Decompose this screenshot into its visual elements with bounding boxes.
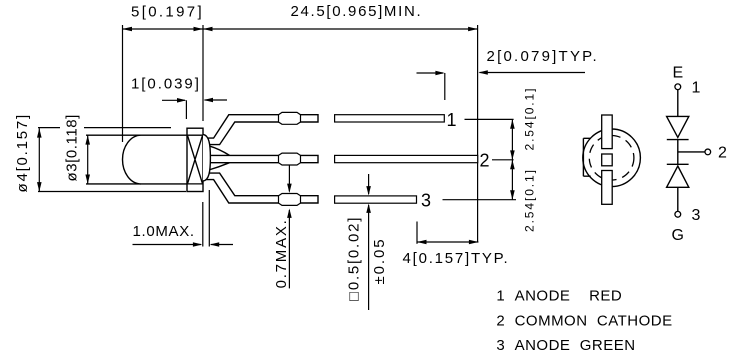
wire diode1 to diode2 xyxy=(677,140,679,165)
svg-text:1: 1 xyxy=(447,110,457,130)
bottom view dashed circle xyxy=(589,136,634,181)
stand-off bump lead 2 xyxy=(279,153,301,165)
diode D1 cathode bar xyxy=(667,139,689,141)
bottom view lead tab bottom xyxy=(602,171,613,205)
bottom view flat edge xyxy=(583,138,590,176)
lead 1 right segment xyxy=(335,115,445,122)
dimension 24.5[0.965]MIN. xyxy=(203,3,478,243)
dimension 2[0.079]TYP. xyxy=(417,48,599,100)
dimension 0.7MAX. xyxy=(273,166,292,289)
svg-text:0.7MAX.: 0.7MAX. xyxy=(273,218,290,288)
schematic terminal 2 xyxy=(705,149,711,155)
wire node to terminal 2 xyxy=(678,151,705,153)
dimension ø3[0.118] xyxy=(64,114,91,184)
svg-text:3: 3 xyxy=(692,207,701,224)
svg-text:3: 3 xyxy=(421,191,431,211)
bottom view outer circle xyxy=(583,129,641,187)
dimension square 0.5[0.02] ±0.05 xyxy=(346,174,389,310)
leader pin 2 xyxy=(492,159,514,161)
diode D1 (red) triangle xyxy=(667,116,689,137)
svg-text:2[0.079]TYP.: 2[0.079]TYP. xyxy=(487,48,599,65)
svg-text:1[0.039]: 1[0.039] xyxy=(131,76,201,93)
diode D2 cathode bar xyxy=(667,163,689,165)
LED package dome xyxy=(86,135,187,184)
lead 2 (straight, left segment) xyxy=(206,155,319,162)
svg-text:□0.5[0.02]: □0.5[0.02] xyxy=(346,216,363,301)
svg-text:2 COMMON CATHODE: 2 COMMON CATHODE xyxy=(496,313,672,330)
stand-off bump lead 3 xyxy=(279,194,301,206)
lead exit swoosh top xyxy=(209,146,230,156)
lead 2 right segment xyxy=(335,155,478,162)
dimension 1.0MAX. xyxy=(133,190,234,247)
svg-text:3 ANODE GREEN: 3 ANODE GREEN xyxy=(496,337,635,354)
dimension 5[0.197] xyxy=(123,4,205,143)
svg-text:2: 2 xyxy=(718,145,727,162)
svg-text:1.0MAX.: 1.0MAX. xyxy=(133,223,195,240)
flange extension lines (ø4) xyxy=(38,127,171,129)
package bump (lead exit meniscus) xyxy=(203,135,210,182)
lead 3 right segment xyxy=(335,196,417,203)
wire diode2 to terminal 3 xyxy=(677,187,679,211)
svg-text:24.5[0.965]MIN.: 24.5[0.965]MIN. xyxy=(291,3,423,20)
svg-text:1 ANODE RED: 1 ANODE RED xyxy=(496,288,622,305)
svg-text:2: 2 xyxy=(480,150,490,170)
svg-text:1: 1 xyxy=(692,80,701,97)
svg-text:ø3[0.118]: ø3[0.118] xyxy=(64,114,81,181)
svg-text:4[0.157]TYP.: 4[0.157]TYP. xyxy=(403,250,510,267)
dimension 4[0.157]TYP. xyxy=(403,222,510,268)
svg-text:±0.05: ±0.05 xyxy=(371,238,388,285)
svg-text:2.54[0.1]: 2.54[0.1] xyxy=(523,168,537,232)
svg-text:E: E xyxy=(673,65,684,82)
svg-text:2.54[0.1]: 2.54[0.1] xyxy=(523,87,537,151)
dimension ø4[0.157] xyxy=(14,113,42,193)
dimension 1[0.039] xyxy=(131,76,227,120)
svg-text:G: G xyxy=(672,227,684,244)
wire terminal1 to diode1 xyxy=(677,90,679,117)
lead 3 (bent down, left segment) xyxy=(206,173,319,203)
bottom view lead tab top xyxy=(602,115,613,149)
svg-text:ø4[0.157]: ø4[0.157] xyxy=(14,113,31,193)
bottom view lead tab middle xyxy=(602,154,613,166)
leader pin 1 xyxy=(465,118,514,120)
lead exit swoosh bottom xyxy=(209,163,230,170)
flange X cross xyxy=(187,135,203,184)
schematic terminal 3 xyxy=(675,211,681,217)
dimension 2.54[0.1] lower xyxy=(510,160,536,232)
leader pin 3 xyxy=(443,199,517,201)
svg-text:5[0.197]: 5[0.197] xyxy=(131,4,204,21)
stand-off bump lead 1 xyxy=(279,112,301,124)
dimension 2.54[0.1] upper xyxy=(510,87,536,160)
diode D2 (green) triangle xyxy=(667,166,689,187)
schematic terminal 1 xyxy=(675,84,681,90)
LED flange xyxy=(187,128,203,191)
lead 1 (bent up, left segment) xyxy=(206,115,319,145)
